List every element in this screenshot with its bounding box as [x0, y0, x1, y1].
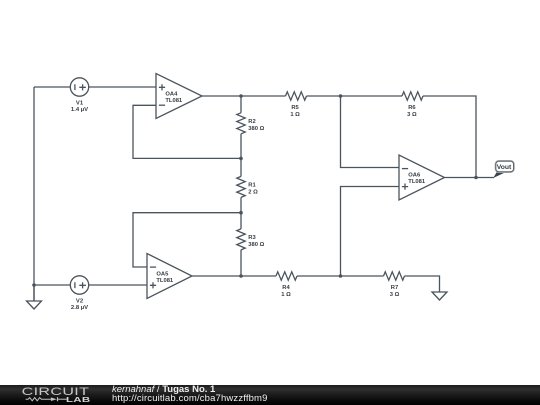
svg-text:380 Ω: 380 Ω — [248, 126, 264, 132]
wire: OA6 output to Vout flag — [445, 177, 495, 179]
wire: OA4 output to R5 left lead — [202, 95, 286, 97]
wire: OA5 output to R4 left lead — [192, 275, 276, 277]
junction: left rail at V2 — [32, 283, 36, 287]
op-amp OA6 minus input pin marker — [402, 168, 408, 170]
junction node B: R1/R3 and OA5 feedback — [239, 211, 243, 215]
wire: OA5 feedback from node B to OA5 inverting input — [133, 213, 241, 267]
svg-text:TL081: TL081 — [156, 278, 174, 284]
wire: R3 bottom lead to bottom rail — [240, 250, 242, 276]
svg-text:OA4: OA4 — [165, 92, 178, 98]
svg-text:R2: R2 — [248, 119, 255, 125]
resistor R5 body — [286, 92, 307, 100]
op-amp OA5 plus input pin marker — [150, 282, 156, 288]
CircuitLab logo — [22, 385, 100, 405]
svg-text:R5: R5 — [291, 105, 299, 111]
wire: R2 bottom lead to R1 top lead — [240, 134, 242, 177]
resistor R2 body — [237, 113, 245, 134]
svg-text:OA5: OA5 — [156, 272, 169, 278]
svg-text:TL081: TL081 — [165, 98, 183, 104]
wire: R6 right lead to right corner then down to output node — [423, 96, 476, 178]
wire: R1 bottom lead to R3 top lead — [240, 197, 242, 229]
svg-text:OA6: OA6 — [408, 173, 421, 179]
wire: left rail from V1 level down to ground — [33, 87, 35, 301]
svg-text:3 Ω: 3 Ω — [390, 292, 400, 298]
footer text — [112, 385, 412, 404]
svg-text:V1: V1 — [76, 101, 84, 107]
op-amp OA5 (TL081) body — [147, 254, 192, 299]
wire: V1 plus terminal to OA4 noninverting input — [88, 86, 156, 88]
op-amp OA5 minus input pin marker — [150, 266, 156, 268]
svg-text:TL081: TL081 — [408, 179, 426, 185]
op-amp OA6 (TL081) body — [399, 155, 445, 200]
junction: R4/R7 node to OA6 noninverting — [339, 274, 343, 278]
svg-text:LAB: LAB — [66, 396, 90, 405]
wire: V2 plus terminal to OA5 noninverting input — [88, 284, 147, 286]
resistor R1 body — [237, 176, 245, 197]
ground symbol right — [432, 292, 447, 300]
svg-text:R1: R1 — [248, 183, 256, 189]
wire: R7 right lead to right ground drop — [405, 276, 440, 292]
wire: left rail to V1 minus terminal — [34, 86, 70, 88]
op-amp OA6 plus input pin marker — [402, 184, 408, 190]
wire: left rail junction down to ground — [33, 285, 35, 301]
resistor R3 body — [237, 229, 245, 250]
wire: OA4 feedback from node A to OA4 inverting input — [133, 105, 241, 158]
svg-text:2 Ω: 2 Ω — [248, 190, 258, 196]
svg-text:R6: R6 — [408, 105, 416, 111]
junction: R5/R6 node to OA6 inverting — [339, 94, 343, 98]
ground symbol left — [27, 301, 42, 309]
svg-text:R4: R4 — [282, 285, 290, 291]
svg-text:2.8 µV: 2.8 µV — [71, 305, 88, 311]
node Vout flag body — [496, 161, 514, 172]
wire: R5 right lead to node at top junction — [307, 95, 403, 97]
svg-text:V2: V2 — [76, 298, 84, 304]
wire: R4 right lead to bottom junction — [297, 275, 384, 277]
voltage source V1 — [70, 78, 88, 96]
resistor R7 body — [384, 272, 405, 280]
junction node A: R2/R1 and OA4 feedback — [239, 157, 243, 161]
svg-text:380 Ω: 380 Ω — [248, 242, 264, 248]
svg-text:R7: R7 — [391, 285, 398, 291]
svg-text:3 Ω: 3 Ω — [407, 112, 417, 118]
svg-text:R3: R3 — [248, 235, 256, 241]
junction: R3 bottom on bottom rail — [239, 274, 243, 278]
voltage source V2 — [70, 276, 88, 294]
resistor R6 body — [402, 92, 423, 100]
junction: OA4 output / R2 top — [239, 94, 243, 98]
wire: bottom junction up to OA6 noninverting input — [341, 187, 400, 277]
svg-text:1 Ω: 1 Ω — [281, 292, 291, 298]
wire: middle rail OA4 output column (R2 top lead) — [240, 96, 242, 113]
op-amp OA4 (TL081) body — [156, 74, 202, 119]
node Vout flag pointer — [493, 172, 505, 178]
wire: top junction down to OA6 inverting input — [341, 96, 400, 168]
wire: left rail junction to V2 minus terminal — [34, 284, 70, 286]
resistor R4 body — [276, 272, 297, 280]
op-amp OA4 plus input pin marker — [159, 84, 165, 90]
footer bar — [0, 385, 540, 405]
svg-text:1 Ω: 1 Ω — [290, 112, 300, 118]
junction: OA6 output / R6 feedback — [474, 176, 478, 180]
op-amp OA4 minus input pin marker — [159, 104, 165, 106]
svg-text:Vout: Vout — [497, 164, 512, 171]
svg-text:1.4 µV: 1.4 µV — [71, 107, 88, 113]
